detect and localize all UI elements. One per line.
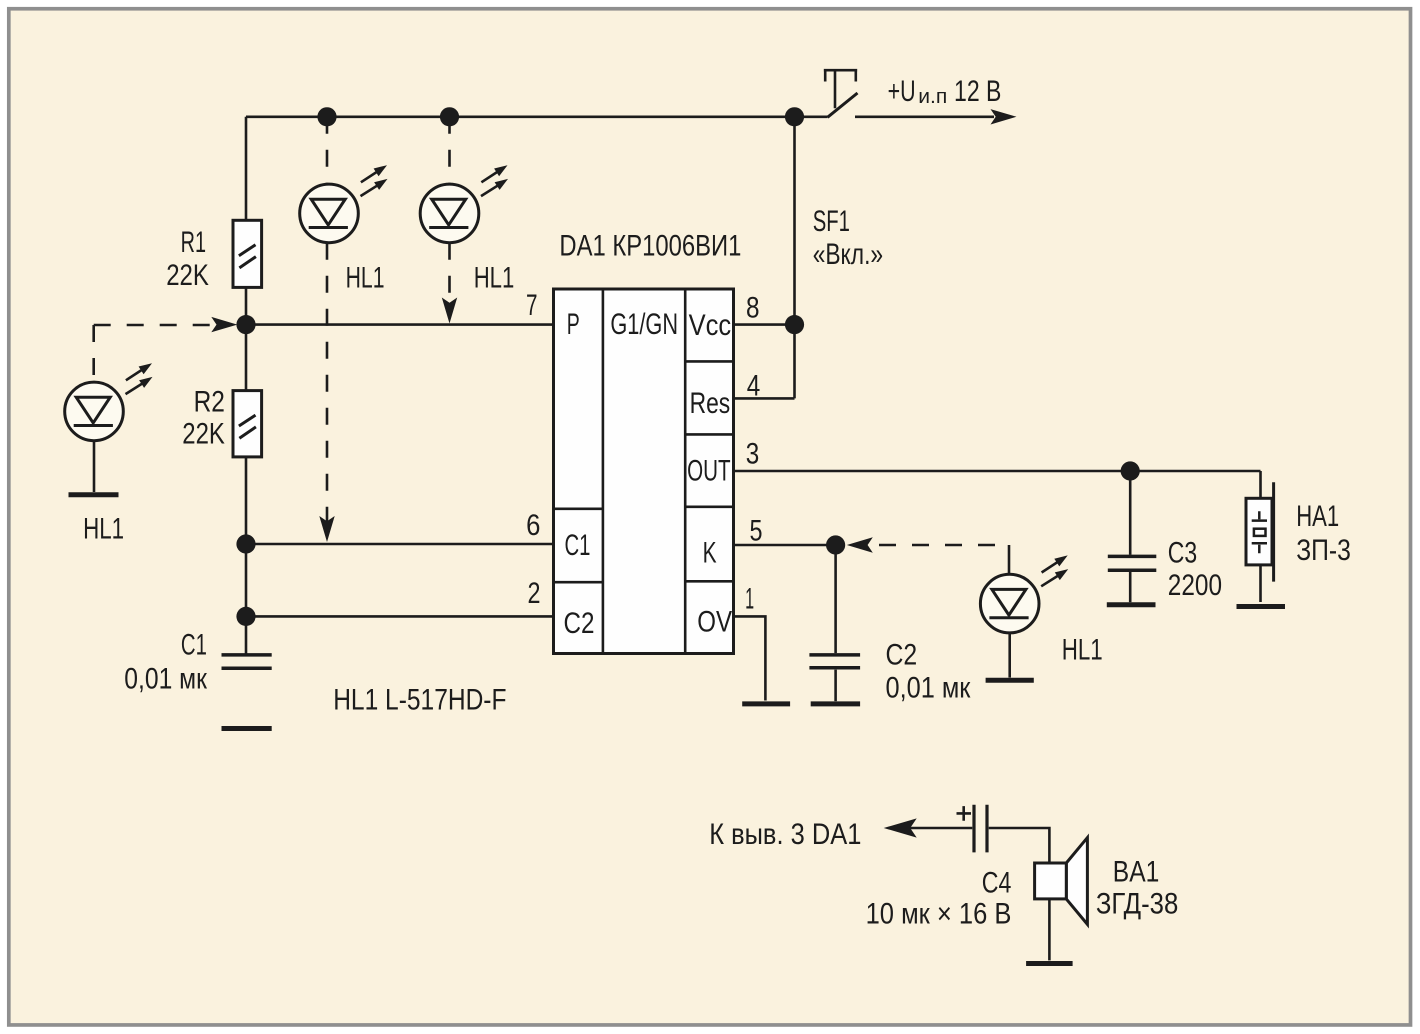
svg-text:«Вкл.»: «Вкл.» [813,238,883,271]
svg-text:P: P [567,308,580,341]
svg-text:C3: C3 [1168,537,1197,570]
dashed optical link left LED to pin 7 node [94,325,210,382]
ground below HA1 [1237,604,1286,609]
node junction top rail / SF1 [785,107,804,126]
svg-text:12 В: 12 В [954,75,1001,108]
wire SF1 vertical to Vcc and Res [793,117,796,399]
IC right column cell dividers [685,361,733,581]
arrow optical into pin 5 node [847,537,873,552]
svg-text:OV: OV [697,605,732,638]
svg-text:C2: C2 [886,639,918,672]
svg-text:R2: R2 [194,385,225,418]
arrow optical into pin 6 wire [319,516,334,542]
node junction pin 6 [236,534,255,553]
wire right LED to ground [1008,633,1011,678]
LED HL1 right [980,555,1068,632]
arrow +U supply direction [991,109,1017,124]
wire corner into right LED [1008,545,1011,574]
svg-text:HL1: HL1 [346,261,385,294]
ground below left LED [69,492,119,497]
switch SF1 pushbutton [824,70,858,117]
dashed optical link right LED to pin 5 [874,544,1009,547]
node junction pin 7 / divider [236,315,255,334]
resistor R1 22K [233,220,262,287]
wire pin 5 K to node [734,544,836,547]
svg-text:HL1 L-517HD-F: HL1 L-517HD-F [333,684,506,717]
svg-text:К выв. 3 DA1: К выв. 3 DA1 [709,818,861,851]
ground below C3 [1107,602,1156,607]
wire pin 8 Vcc to SF1 line [734,323,795,326]
LED HL1 second (top) [420,165,508,242]
svg-text:HL1: HL1 [474,261,515,294]
wire C4 to speaker [989,828,1050,863]
capacitor C1 plates [222,655,272,668]
svg-text:BA1: BA1 [1113,856,1160,889]
svg-text:и.п: и.п [918,86,947,108]
wire left LED to ground [93,441,96,492]
wire C2 to ground [834,670,837,702]
IC left column cell dividers [554,509,603,582]
wire pin 3 OUT to HA1 [734,470,1261,473]
wire OUT corner down to HA1 [1259,471,1262,498]
wire pin 7 from node to IC [246,323,554,326]
svg-text:4: 4 [747,370,761,403]
svg-text:C1: C1 [565,529,591,562]
ground below pin 1 [742,701,790,706]
svg-text:3: 3 [746,438,760,471]
dashed optical link LED1 to pin 6 [326,243,329,530]
svg-text:DA1 КР1006ВИ1: DA1 КР1006ВИ1 [559,229,741,262]
svg-text:22K: 22K [182,418,225,451]
svg-text:8: 8 [746,291,760,324]
svg-text:C1: C1 [181,628,207,661]
svg-text:0,01 мк: 0,01 мк [124,662,207,695]
plus polarity mark C4 [957,806,972,821]
arrow optical into pin 7 wire [442,298,457,324]
node junction top rail / LED1 drop [317,107,336,126]
dashed optical link top to LED2 [448,117,451,184]
svg-text:5: 5 [750,515,763,548]
svg-text:ЗГД-38: ЗГД-38 [1096,888,1178,921]
ground below right LED [986,678,1034,683]
wire C3 to ground [1129,572,1132,602]
svg-text:7: 7 [526,289,538,322]
dashed optical link top to LED1 [326,117,329,184]
capacitor C2 plates [809,655,860,668]
svg-text:K: K [703,537,717,570]
svg-text:2: 2 [528,577,541,610]
svg-text:ЗП-3: ЗП-3 [1296,534,1351,567]
wire left rail top to R1 [245,117,248,221]
svg-text:HL1: HL1 [83,513,124,546]
speaker BA1 3GD-38 [1035,838,1088,925]
svg-text:6: 6 [526,509,540,542]
node junction OUT / C3 [1121,461,1140,480]
svg-text:OUT: OUT [687,454,731,487]
svg-text:C2: C2 [564,607,595,640]
svg-text:2200: 2200 [1168,569,1222,602]
svg-text:G1/GN: G1/GN [610,308,678,341]
wire HA1 to ground [1259,565,1262,602]
wire pin 2 from node to IC [246,615,554,618]
wire C2 node to plates [834,545,837,653]
node junction pin 2 [236,607,255,626]
svg-text:1: 1 [745,582,754,615]
ground below C1 [222,726,272,731]
svg-text:HA1: HA1 [1296,500,1339,533]
IC internal divider left column [602,289,605,654]
wire R1 to R2 through node [245,287,248,390]
svg-text:+U: +U [888,75,916,108]
arrow optical into pin 7 node [211,317,237,332]
wire bottom note to C4 [910,827,972,830]
ground below speaker [1026,961,1073,966]
node junction pin 5 / C2 [826,535,845,554]
wire top supply rail left segment [246,116,828,119]
svg-text:Res: Res [690,387,731,420]
ground below C2 [811,701,860,706]
wire pin 4 Res to SF1 line [734,397,795,400]
svg-text:22K: 22K [166,259,209,292]
svg-text:SF1: SF1 [813,205,850,238]
resistor R2 22K [233,391,262,457]
node junction top rail / LED2 drop [440,107,459,126]
svg-text:Vcc: Vcc [689,309,732,342]
wire pin 1 OV to ground [734,616,766,700]
buzzer HA1 ZP-3 [1246,482,1274,581]
capacitor C4 plates [974,805,987,853]
IC DA1 KR1006VI1 body [554,289,734,654]
svg-text:C4: C4 [982,867,1012,900]
svg-text:10 мк × 16 В: 10 мк × 16 В [866,898,1012,931]
node junction pin 8 / SF1 line [785,315,804,334]
capacitor C3 plates [1108,556,1157,570]
IC internal divider right column [684,289,687,654]
LED HL1 left [65,363,153,441]
arrow to pin 3 DA1 (bottom note) [884,818,917,837]
svg-text:R1: R1 [181,226,206,259]
wire top supply rail right segment to +U arrow [855,116,994,119]
svg-text:HL1: HL1 [1062,633,1103,666]
wire speaker to ground [1048,899,1051,961]
svg-text:0,01 мк: 0,01 мк [886,672,972,705]
dashed optical link LED2 to pin 7 [448,243,451,312]
wire R2 to C1 node [245,457,248,654]
wire pin 6 from node to IC [246,543,554,546]
wire C3 node to plates [1129,471,1132,555]
LED HL1 first (top) [300,165,388,242]
